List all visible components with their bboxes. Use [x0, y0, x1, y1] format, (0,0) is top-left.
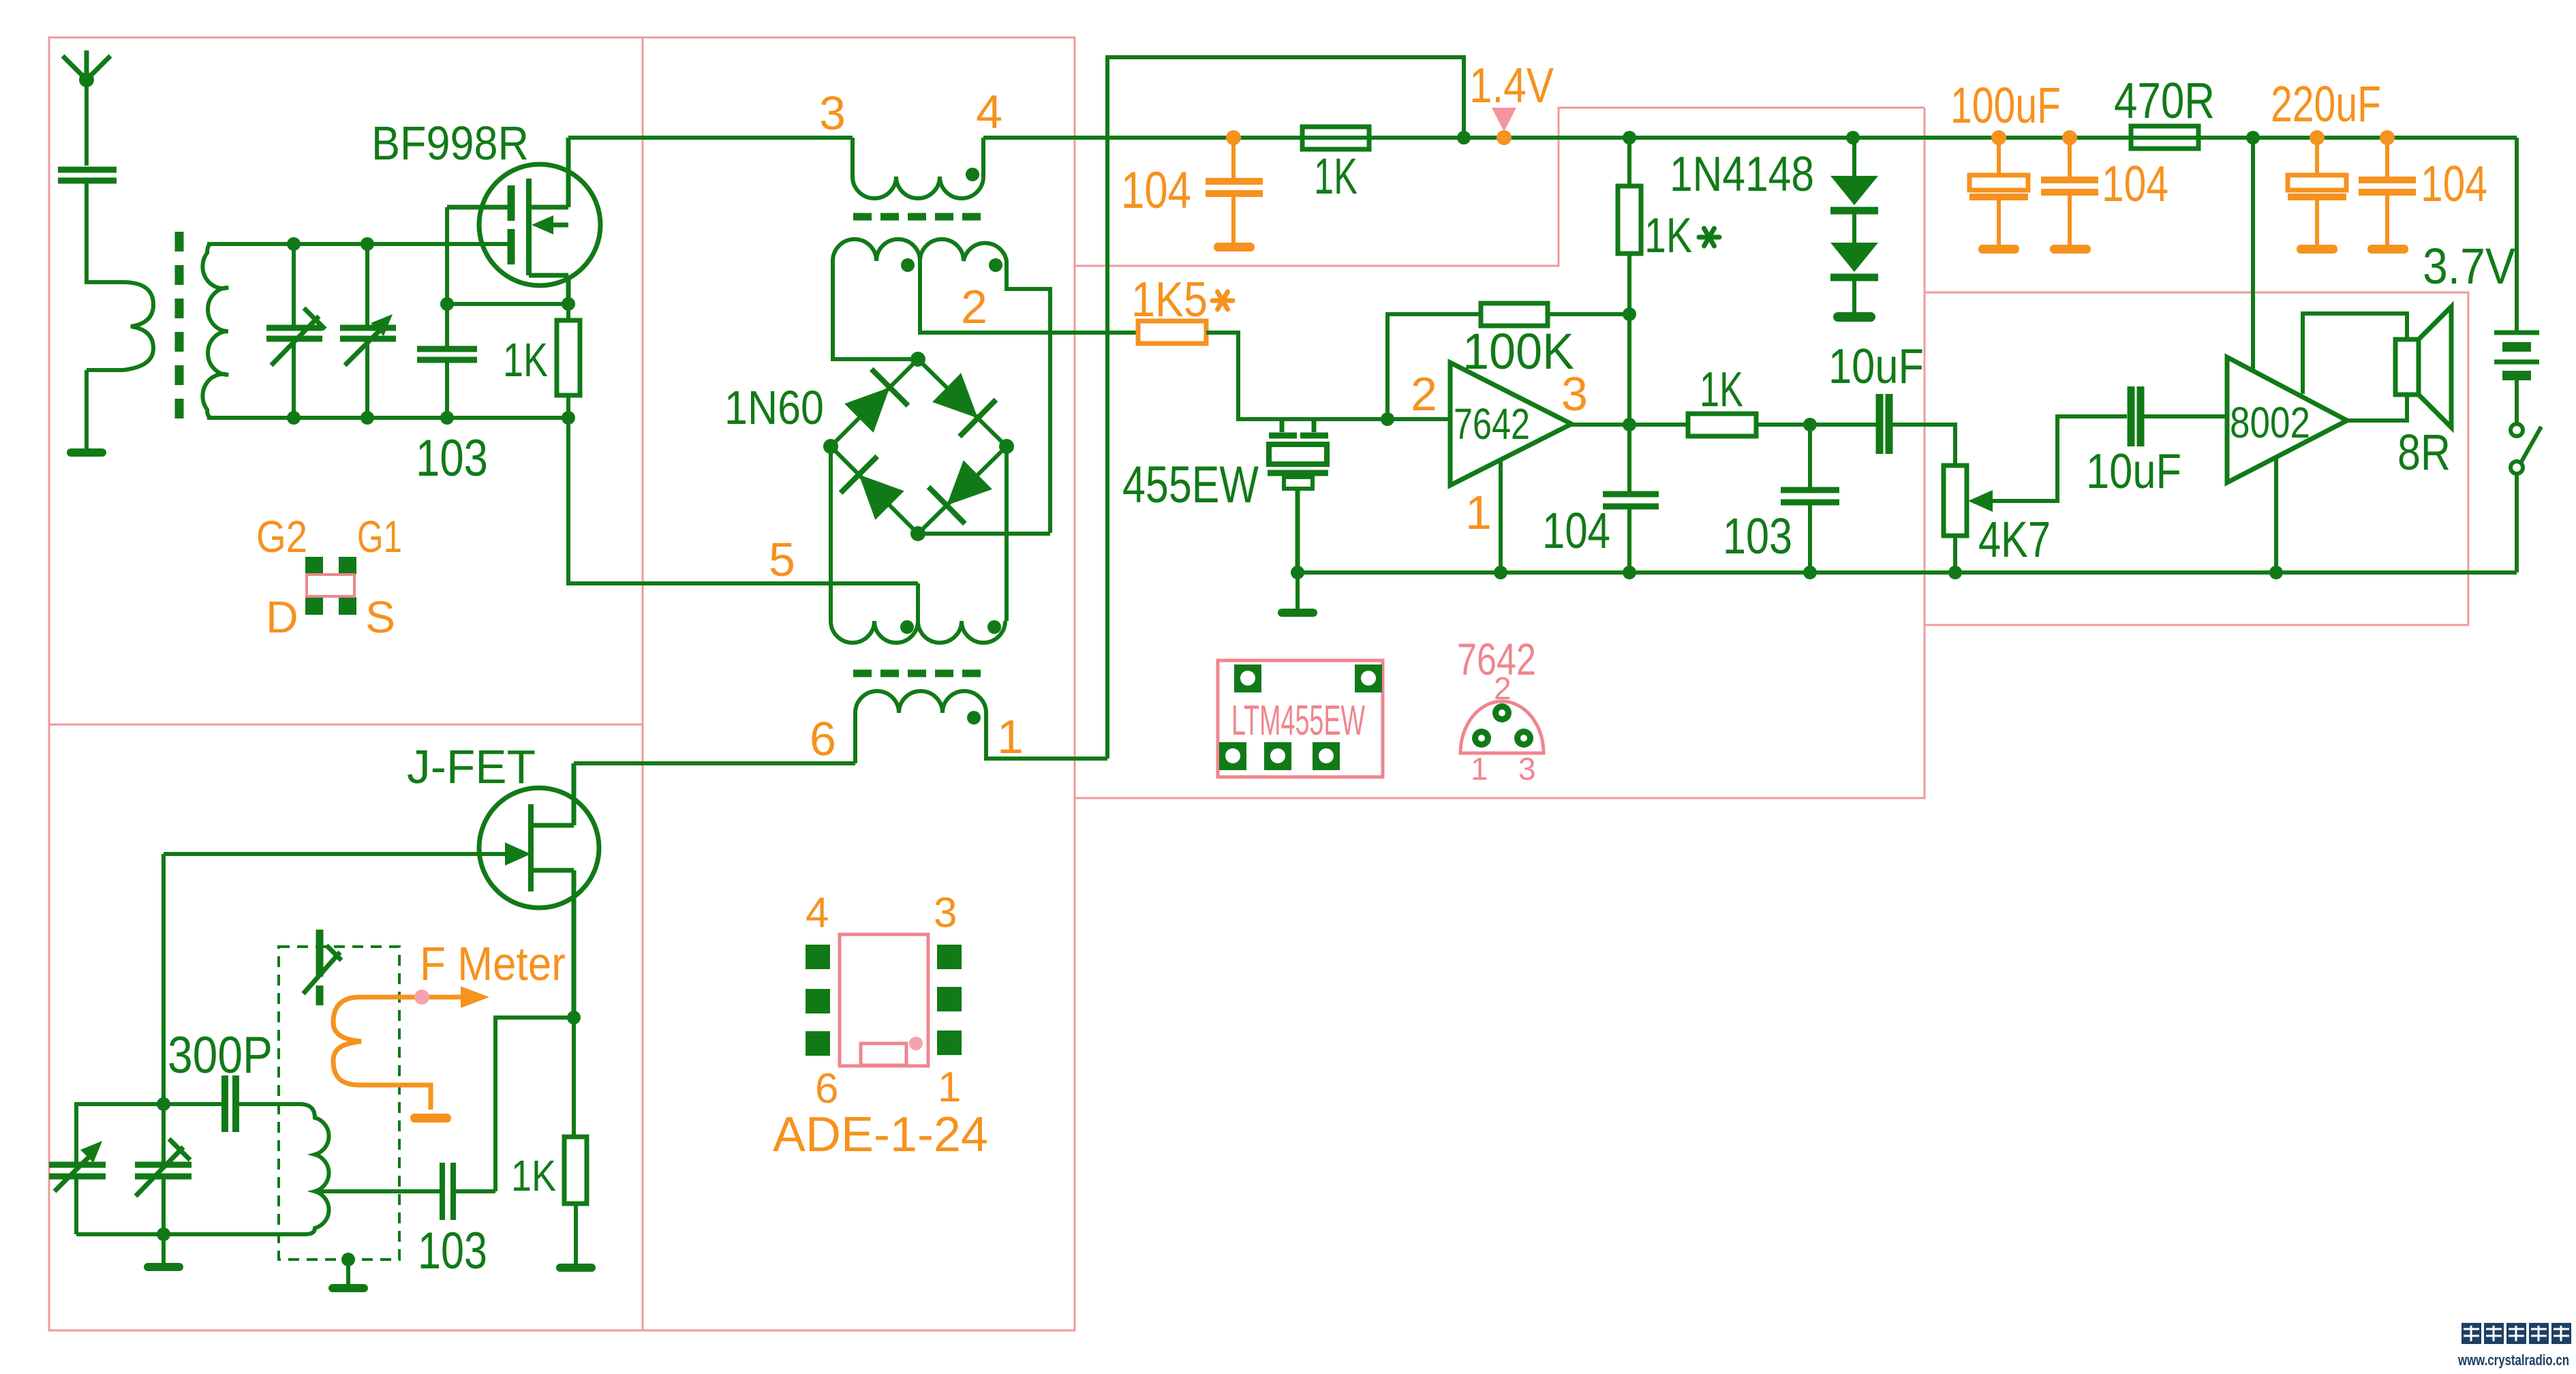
svg-text:6: 6 [815, 1065, 838, 1112]
junction dot rail bypass [1457, 131, 1471, 144]
svg-text:J-FET: J-FET [407, 740, 536, 793]
svg-text:3: 3 [819, 87, 846, 140]
wire 103 to source [453, 1189, 495, 1193]
svg-text:8R: 8R [2397, 424, 2451, 480]
wire output node vertical [1627, 314, 1631, 491]
junction dot pin1 rail [1494, 566, 1507, 579]
wire coil tap to 103 [315, 1189, 440, 1193]
svg-text:G2: G2 [256, 511, 307, 562]
junction dot 8002 supply rail [2246, 131, 2260, 144]
wire 300P left [164, 1102, 225, 1106]
capacitor C14 104 orange b [2359, 138, 2416, 245]
diode D5 1N4148 upper [1830, 138, 1878, 211]
junction dot G1 node [440, 297, 454, 311]
transformer T2 secondary winding [833, 239, 1050, 533]
capacitor C11 100uF electrolytic [1969, 138, 2028, 245]
wire center tap pin 2 [920, 261, 1136, 333]
svg-text:103: 103 [418, 1222, 487, 1280]
junction dot 104 tap orange [1226, 130, 1241, 145]
svg-text:4K7: 4K7 [1978, 511, 2051, 568]
resistor R9 470R [2131, 126, 2198, 149]
wire secondary left to bridge top [833, 354, 918, 359]
wire 7642 pin1 down [1499, 461, 1503, 572]
wire feedback vertical [1387, 314, 1481, 419]
junction dot 7642 output [1623, 418, 1636, 431]
resistor R5 100K [1481, 303, 1548, 326]
ground 104 orange [1214, 243, 1255, 251]
terminal bar 1N4148 [1833, 312, 1875, 322]
junction dot 1K* top rail [1623, 131, 1636, 144]
wire 100K to 1K* node [1548, 312, 1629, 316]
svg-text:1: 1 [1465, 486, 1492, 539]
wire drain to mixer pin 6 [574, 761, 855, 765]
BF998R SMD footprint pads [305, 557, 356, 615]
BF998R SMD footprint body [307, 575, 354, 596]
ground 104a [2050, 245, 2091, 254]
junction dot 104b rail [2380, 130, 2395, 145]
potentiometer R8 4K7 [1944, 465, 1967, 572]
frequency meter pickup loop [333, 997, 431, 1110]
capacitor C15 10uF audio [2131, 386, 2141, 446]
shield box dashed [279, 947, 399, 1259]
ground 104b [2367, 245, 2408, 254]
antenna [63, 50, 110, 80]
wire 10uF2 to 8002 input [2141, 414, 2227, 418]
section box mixer (middle) [643, 37, 1075, 1330]
battery BT1 3.7V [2494, 138, 2539, 424]
variable capacitor CV2 tuning [340, 244, 396, 418]
wire source node down to pin 5 [568, 418, 918, 583]
wire supply to 8002 [2251, 138, 2255, 371]
resistor R6 1K* vertical [1618, 138, 1641, 314]
wire C1 to L1 [87, 181, 123, 282]
wire gate lead [164, 852, 510, 856]
svg-text:1: 1 [938, 1064, 961, 1111]
ground 455EW [1295, 572, 1300, 609]
wire 8002 inverted output to speaker top [2303, 314, 2407, 394]
capacitor 103 gate bypass [417, 349, 477, 360]
junction dot 1K* bottom [1623, 307, 1636, 321]
wire pin1 riser to top bypass [1107, 57, 1464, 759]
junction dot tank bottom [157, 1227, 170, 1241]
asterisk 1K* [1699, 228, 1719, 246]
svg-text:6: 6 [810, 712, 836, 765]
svg-text:104: 104 [2102, 155, 2168, 212]
wire 8002 gnd pin [2274, 457, 2278, 572]
frequency meter tap dot [414, 990, 429, 1005]
svg-text:4: 4 [976, 85, 1002, 138]
wire pin5 to center tap T3 [916, 583, 920, 621]
wire antenna to C1 [85, 80, 89, 166]
ground antenna [85, 444, 89, 448]
diode ring 1N60 sides [831, 359, 1050, 534]
inductor L1 antenna winding [87, 282, 153, 370]
wire 300P right to coil [236, 1102, 300, 1106]
wire 7642 output [1571, 423, 1688, 427]
wire wiper to 10uF2 [2025, 416, 2127, 501]
section box RF front-end / oscillator (left outer frame) [49, 37, 643, 1330]
junction dot 1N4148 rail [1846, 131, 1860, 144]
variable capacitor CV4 osc trimmer [135, 1104, 191, 1234]
transformer T1 core [175, 232, 184, 418]
phase dot T3 secondary [967, 711, 981, 724]
svg-text:1: 1 [1471, 751, 1488, 787]
package footprint LTM455EW [1218, 660, 1383, 777]
wire bridge right corner down [1005, 446, 1009, 621]
ground 220uF [2297, 245, 2337, 254]
capacitor 104 orange [1206, 138, 1263, 243]
junction dot 4K7 rail [1948, 566, 1962, 579]
gate arrow [505, 842, 531, 866]
svg-text:1: 1 [997, 710, 1024, 763]
svg-text:www.crystalradio.cn: www.crystalradio.cn [2457, 1352, 2569, 1369]
svg-text:300P: 300P [168, 1026, 273, 1084]
junction dots tank bottom [287, 411, 575, 425]
diode D6 1N4148 lower [1830, 211, 1878, 312]
svg-text:1K: 1K [1700, 363, 1743, 417]
diode D4 1N60 lower-right [929, 460, 992, 523]
transformer T2 core dashed [853, 213, 984, 221]
svg-text:1N60: 1N60 [724, 381, 824, 434]
amplifier U1 7642 triangle [1450, 363, 1571, 485]
svg-text:1.4V: 1.4V [1469, 59, 1554, 113]
svg-text:1K5: 1K5 [1131, 273, 1208, 327]
svg-text:470R: 470R [2114, 72, 2215, 129]
wire gate vertical to tank [162, 854, 166, 1104]
node dots diode ring [823, 352, 1014, 541]
resistor R3 1K rail [1302, 127, 1369, 149]
section box audio amplifier [1925, 292, 2468, 625]
junction dot source node J-FET [567, 1011, 581, 1024]
resistor R1 1K source [557, 304, 580, 418]
junction dot shield ground [341, 1253, 355, 1266]
svg-text:1K: 1K [503, 333, 548, 386]
potentiometer wiper arrow [1968, 490, 2025, 512]
junction dot 104a rail [2062, 130, 2077, 145]
transformer T3 secondary winding pins 6-1 [855, 691, 1107, 763]
svg-text:100uF: 100uF [1950, 77, 2061, 134]
wire 1K to coupling node [1756, 423, 1879, 427]
transformer T2 primary winding pins 3-4 [853, 138, 983, 198]
wire L1 to ground [85, 370, 89, 447]
svg-text:5: 5 [769, 533, 795, 586]
junction dot tank top [157, 1097, 170, 1111]
diode D1 1N60 upper-left [844, 369, 908, 433]
svg-text:1K: 1K [511, 1151, 556, 1200]
svg-text:2: 2 [961, 280, 987, 333]
switch SW1 [2511, 424, 2541, 572]
transistor Q1 BF998R dual-gate MOSFET [447, 138, 600, 304]
svg-text:F Meter: F Meter [420, 937, 566, 990]
wire pin 4 to rail [983, 136, 2517, 140]
amplifier U2 8002 triangle [2227, 357, 2347, 483]
junction dot coupling node [1803, 418, 1817, 431]
speaker LS1 driver [2395, 339, 2419, 395]
svg-text:3: 3 [934, 889, 957, 936]
svg-text:D: D [266, 592, 298, 642]
wire 10uF to volume [1889, 425, 1955, 465]
capacitor C12 104 orange a [2041, 138, 2098, 245]
transformer T3 primary winding [831, 621, 1005, 643]
junction dots tank top [287, 237, 374, 251]
svg-text:104: 104 [2421, 155, 2487, 212]
watermark crystalradio logo [2462, 1323, 2571, 1344]
resistor R7 1K output [1688, 414, 1756, 436]
package TO-92 7642 [1460, 701, 1544, 753]
capacitor C13 220uF electrolytic [2288, 138, 2346, 245]
inductor L3 oscillator coil [76, 1104, 329, 1234]
junction dot source node [562, 297, 575, 311]
svg-text:ADE-1-24: ADE-1-24 [773, 1108, 988, 1162]
ground shield [346, 1259, 350, 1284]
wire bottom rail [1298, 570, 2517, 575]
phase dot T2 primary [966, 168, 979, 181]
ground tank [162, 1234, 166, 1263]
phase dots T3 primary [900, 620, 1001, 634]
speaker LS1 cone [2419, 307, 2451, 427]
wire source to feedback tap [495, 1018, 574, 1191]
svg-text:LTM455EW: LTM455EW [1231, 697, 1365, 744]
diode D2 1N60 upper-right [932, 373, 996, 436]
svg-text:G1: G1 [357, 511, 402, 562]
svg-text:10uF: 10uF [1828, 339, 1924, 394]
svg-text:3.7V: 3.7V [2423, 238, 2516, 294]
capacitor C1 antenna coupling [58, 170, 117, 181]
wire bridge left corner down [829, 446, 833, 621]
svg-text:103: 103 [1723, 508, 1792, 564]
inductor L2 tank winding [202, 244, 228, 418]
svg-text:220uF: 220uF [2271, 76, 2381, 132]
svg-text:1K: 1K [1314, 148, 1358, 204]
wire 1K5 to filter input [1206, 333, 1450, 419]
svg-text:8002: 8002 [2230, 398, 2310, 447]
svg-text:104: 104 [1121, 162, 1191, 219]
svg-text:1N4148: 1N4148 [1670, 147, 1814, 202]
wire tank bottom rail [207, 416, 571, 420]
svg-text:100K: 100K [1462, 323, 1574, 380]
svg-text:S: S [365, 592, 395, 642]
wire tank top left [76, 1104, 164, 1162]
svg-text:3: 3 [1518, 751, 1536, 787]
voltage marker dot [1497, 130, 1512, 145]
capacitor 103 oscillator [442, 1163, 453, 1220]
wire 8002 output to speaker bottom [2347, 395, 2407, 421]
wire tank top rail [207, 242, 511, 246]
svg-text:10uF: 10uF [2086, 444, 2181, 499]
svg-text:2: 2 [1494, 671, 1512, 706]
capacitor 104 IF green [1603, 494, 1659, 506]
wire G1 bias vertical [445, 207, 449, 304]
wire 104 IF bottom [1627, 506, 1631, 572]
transformer T3 core dashed [853, 670, 984, 677]
svg-text:1K: 1K [1644, 209, 1692, 263]
wire 103 IF stems [1808, 425, 1812, 572]
voltage marker 1.4V arrow [1492, 108, 1516, 132]
section box IF amplifier [1075, 108, 1925, 798]
svg-text:4: 4 [806, 889, 829, 936]
junction dot filter gnd [1291, 566, 1304, 579]
svg-text:2: 2 [1411, 367, 1437, 421]
svg-text:455EW: 455EW [1122, 456, 1259, 514]
variable capacitor CV1 trimmer [266, 244, 325, 418]
section box 1.4V filter [1075, 108, 1925, 266]
capacitor C10 10uF coupling [1880, 394, 1889, 454]
junction dot 220uF rail [2310, 130, 2325, 145]
antenna node dot [79, 72, 94, 87]
resistor R2 1K oscillator [564, 1018, 587, 1262]
ground R2 [574, 1259, 578, 1264]
ceramic filter 455EW [1268, 419, 1328, 572]
resistor R4 1K5 orange [1138, 321, 1206, 343]
wire drain to mixer pin 3 [568, 136, 853, 140]
capacitor 300P [225, 1075, 236, 1132]
diode D3 1N60 lower-left [841, 457, 904, 520]
junction dot 103 rail [1803, 566, 1817, 579]
phase dots T2 secondary [901, 258, 1002, 272]
ground 100uF [1978, 245, 2019, 254]
wire 103 stems [445, 304, 449, 418]
asterisk 1K5 [1212, 292, 1233, 309]
svg-text:104: 104 [1542, 502, 1610, 559]
ground F meter orange [410, 1114, 451, 1123]
svg-text:7642: 7642 [1454, 399, 1530, 448]
frequency meter arrow [360, 986, 489, 1008]
junction dot 100uF rail [1991, 130, 2006, 145]
package footprint ADE-1-24 [806, 934, 962, 1066]
junction dot 104 rail [1623, 566, 1636, 579]
junction dot filter input fb [1381, 412, 1394, 426]
junction dot 8002 gnd rail [2269, 566, 2283, 579]
svg-text:BF998R: BF998R [371, 117, 529, 170]
capacitor 103 IF [1781, 490, 1839, 502]
variable capacitor CV3 osc tuning [49, 1141, 106, 1234]
transistor Q2 J-FET [479, 763, 599, 1018]
svg-text:103: 103 [416, 429, 488, 487]
trimmer capacitor inside shield [303, 930, 341, 1005]
wire G1 node to source node [447, 302, 568, 306]
